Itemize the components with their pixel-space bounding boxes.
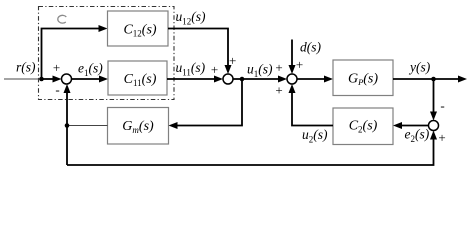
- svg-text:-: -: [440, 98, 444, 113]
- svg-text:+: +: [275, 83, 282, 98]
- arrow down into S2: [225, 65, 232, 74]
- block Gm: [108, 108, 169, 145]
- wire bottom feedback to S4: [67, 139, 434, 165]
- svg-text:+: +: [211, 62, 218, 77]
- summing junction S3: [287, 74, 297, 84]
- block C2: [333, 108, 393, 145]
- svg-text:Gm(s): Gm(s): [122, 119, 154, 135]
- arrow into summing junction S1: [53, 76, 62, 83]
- node branch point to C12: [39, 77, 44, 82]
- arrow into C2 right side: [393, 122, 402, 129]
- wire u12 from C12 to S2 top: [168, 29, 228, 67]
- wire r(s) into S1: [42, 78, 55, 80]
- svg-text:u1(s): u1(s): [247, 62, 273, 80]
- svg-text:C2(s): C2(s): [349, 119, 378, 135]
- wire u1 branch down to Gm input: [177, 79, 242, 126]
- wire u1 from S2 to S3: [233, 78, 278, 80]
- block C11: [108, 61, 167, 95]
- summing junction S2: [223, 74, 233, 84]
- arrow into Gm right side: [169, 122, 178, 129]
- svg-text:e1(s): e1(s): [78, 61, 103, 79]
- svg-text:+: +: [438, 130, 445, 145]
- svg-text:GP(s): GP(s): [348, 72, 378, 88]
- arrow into Gp: [324, 76, 333, 83]
- wire feedback up into S1: [66, 93, 68, 166]
- block Gp: [333, 60, 393, 96]
- arrow up into S4 bottom: [430, 131, 437, 140]
- node Gm output junction: [65, 123, 70, 128]
- svg-text:u11(s): u11(s): [176, 60, 206, 78]
- arrow into S2: [214, 76, 223, 83]
- arrow down into S4 top: [430, 112, 437, 121]
- svg-text:+: +: [296, 57, 303, 72]
- svg-text:+: +: [275, 60, 282, 75]
- svg-text:r(s): r(s): [16, 60, 36, 75]
- arrow output right: [458, 76, 467, 83]
- wire y(s) output: [393, 78, 458, 80]
- arrow up into S1 bottom: [64, 84, 71, 93]
- node y branch point: [431, 77, 436, 82]
- svg-text:u12(s): u12(s): [176, 9, 206, 27]
- wire u2 from C2 to S3 bottom: [292, 93, 333, 126]
- block C12: [108, 11, 169, 46]
- svg-text:-: -: [55, 82, 59, 97]
- wire Gm output to feedback node: [67, 125, 108, 127]
- wire u11 from C11 to S2: [167, 78, 215, 80]
- arrow into C11: [99, 76, 108, 83]
- wire d(s) disturbance into S3: [291, 40, 293, 67]
- svg-text:e2(s): e2(s): [405, 127, 430, 145]
- wire e1 from S1 to C11: [72, 78, 101, 80]
- arrow into S3: [278, 76, 287, 83]
- svg-text:u2(s): u2(s): [302, 127, 328, 145]
- arrow down into S3 top: [289, 65, 296, 74]
- dashed controller boundary box: [39, 7, 175, 100]
- svg-text:+: +: [229, 53, 236, 68]
- wire S3 to Gp: [297, 78, 325, 80]
- svg-text:+: +: [53, 60, 60, 75]
- wire r(s) input thin segment: [4, 78, 42, 80]
- arrow into C12: [99, 25, 108, 32]
- wire e2 from S4 to C2: [402, 125, 429, 127]
- wire y branch down into S4: [433, 79, 435, 112]
- arrow up into S3 bottom: [289, 84, 296, 93]
- summing junction S4: [429, 121, 439, 131]
- summing junction S1: [62, 74, 72, 84]
- wire branch up to C12: [42, 29, 100, 80]
- svg-text:d(s): d(s): [300, 40, 321, 55]
- label c on branch: [58, 15, 66, 23]
- svg-text:y(s): y(s): [408, 60, 431, 75]
- node u1 branch point: [240, 77, 245, 82]
